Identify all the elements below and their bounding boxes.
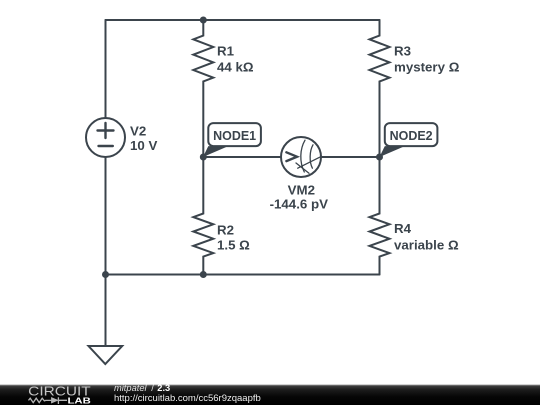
- svg-text:10 V: 10 V: [130, 138, 157, 153]
- svg-text:R4: R4: [394, 221, 412, 236]
- resistor R3: [370, 20, 390, 157]
- label VM2 reading: [270, 196, 329, 211]
- svg-text:44 kΩ: 44 kΩ: [217, 60, 254, 75]
- footer bar: [0, 383, 540, 405]
- junction dot top rail / R1: [200, 17, 207, 24]
- label R1 name: [217, 44, 235, 59]
- svg-text:V2: V2: [130, 124, 146, 139]
- label V2 name: [130, 124, 146, 139]
- svg-text:http://circuitlab.com/cc56r9zq: http://circuitlab.com/cc56r9zqaapfb: [114, 393, 261, 404]
- resistor R2: [193, 157, 213, 275]
- label R1 value: [217, 60, 254, 75]
- svg-text:LAB: LAB: [68, 395, 91, 405]
- svg-text:mitpatel: mitpatel: [114, 383, 147, 393]
- ground: [89, 346, 123, 364]
- junction dot bottom rail / left column: [102, 271, 109, 278]
- label R3 value: [394, 60, 460, 75]
- resistor R4: [370, 157, 390, 275]
- svg-text:-144.6 pV: -144.6 pV: [270, 196, 329, 211]
- wire left column bottom (V2 minus terminal to ground, through bottom rail junction): [105, 157, 107, 346]
- label R4 value: [394, 237, 459, 252]
- junction dot NODE1: [200, 154, 207, 161]
- resistor R1: [193, 20, 213, 157]
- junction dot bottom rail / R2: [200, 271, 207, 278]
- svg-text:R3: R3: [394, 44, 411, 59]
- svg-text:/: /: [151, 383, 154, 393]
- label R2 name: [217, 223, 234, 238]
- label R4 name: [394, 221, 412, 236]
- svg-text:2.3: 2.3: [157, 383, 170, 393]
- svg-text:1.5 Ω: 1.5 Ω: [217, 237, 250, 252]
- label VM2 name: [288, 183, 315, 198]
- wire NODE1 to voltmeter left terminal: [203, 156, 281, 158]
- node NODE1 flag: [203, 123, 261, 157]
- wire bottom rail: [106, 274, 380, 276]
- svg-text:NODE1: NODE1: [213, 128, 257, 143]
- voltmeter VM2: [281, 137, 322, 177]
- wire left column top (top rail to V2 plus terminal): [105, 20, 107, 118]
- voltage source V2: [86, 118, 125, 157]
- svg-text:R2: R2: [217, 223, 234, 238]
- wire top rail: [106, 19, 380, 21]
- svg-text:variable Ω: variable Ω: [394, 237, 459, 252]
- node NODE2 flag: [380, 123, 438, 157]
- label V2 value: [130, 138, 157, 153]
- svg-text:R1: R1: [217, 44, 235, 59]
- svg-text:NODE2: NODE2: [390, 128, 433, 143]
- label R3 name: [394, 44, 411, 59]
- wire voltmeter right terminal to NODE2: [321, 156, 380, 158]
- label R2 value: [217, 237, 250, 252]
- junction dot NODE2: [376, 154, 383, 161]
- svg-text:mystery Ω: mystery Ω: [394, 60, 460, 75]
